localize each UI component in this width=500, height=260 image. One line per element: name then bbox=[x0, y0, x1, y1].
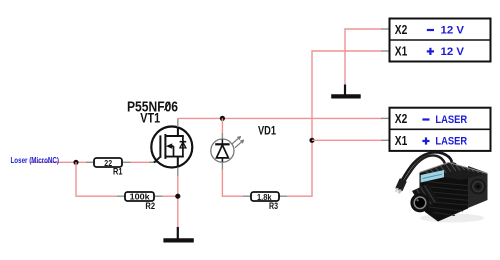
VD1 inner vertical line bbox=[221, 139, 223, 161]
node B junction dot on drain net bbox=[220, 116, 225, 121]
ground symbol 2 bar bbox=[331, 94, 361, 98]
photo label strip bbox=[421, 170, 444, 183]
transistor VT1 MOSFET circle bbox=[151, 127, 192, 168]
VT1 source lead inside bbox=[177, 157, 179, 168]
wire source node to ground bbox=[177, 176, 179, 227]
wire connector X2 -12V to ground bbox=[345, 29, 382, 85]
VD1 light emission arrow 1 bbox=[232, 137, 241, 144]
svg-text:X2: X2 bbox=[395, 23, 408, 37]
VT1 body diode vertical bbox=[182, 136, 184, 157]
connector block LASER pin stub X2 bbox=[381, 117, 390, 119]
VT1 drain lead inside bbox=[177, 127, 179, 136]
resistor R3 lead left bbox=[243, 195, 251, 197]
resistor R2 lead right bbox=[154, 195, 163, 197]
VT1 body-source vertical bbox=[173, 146, 175, 157]
resistor R3 lead right bbox=[279, 195, 287, 197]
node D junction dot source/R2 bbox=[175, 194, 180, 199]
VT1 gate pin gray bbox=[149, 161, 157, 163]
plus sign +12V bbox=[427, 48, 434, 55]
plus sign +LASER bbox=[422, 137, 429, 144]
resistor R1 lead left bbox=[86, 161, 94, 163]
photo back fan block bbox=[468, 166, 488, 208]
connector block 12V divider bbox=[390, 39, 491, 41]
svg-text:12 V: 12 V bbox=[441, 25, 465, 37]
svg-text:22: 22 bbox=[104, 158, 112, 168]
VT1 gate entry diagonal bbox=[154, 157, 161, 163]
svg-text:X2: X2 bbox=[395, 112, 408, 126]
minus sign -12V bbox=[427, 29, 434, 31]
ground symbol 1 stem bbox=[177, 227, 179, 239]
resistor R2 lead left bbox=[117, 195, 125, 197]
connector block X 12V pin stub X2 bbox=[381, 28, 390, 30]
ground symbol 2 stem bbox=[344, 85, 346, 96]
ground symbol 1 bar bbox=[163, 238, 193, 242]
VT1 drain lead gray bbox=[177, 118, 179, 127]
svg-text:X1: X1 bbox=[395, 134, 408, 148]
svg-text:R3: R3 bbox=[269, 201, 278, 211]
connector block LASER divider bbox=[390, 128, 491, 130]
photo lens barrel bbox=[412, 184, 439, 210]
node A junction dot bbox=[73, 160, 78, 165]
connector block LASER pin stub X1 bbox=[381, 139, 390, 141]
VT1 source lead gray bbox=[177, 167, 179, 176]
svg-text:Loser (MicroNC): Loser (MicroNC) bbox=[11, 156, 60, 165]
VD1 cathode bar bbox=[215, 143, 229, 145]
wire node C to connector X1 +LASER bbox=[312, 139, 382, 141]
resistor R1 body bbox=[94, 158, 122, 167]
photo cable strands bbox=[402, 152, 452, 180]
VT1 gate bar bbox=[159, 135, 161, 157]
VD1 triangle bbox=[216, 145, 228, 158]
wire R2 to source node bbox=[163, 195, 178, 197]
VT1 drain stub bbox=[165, 135, 184, 137]
wire node B down to VD1 bbox=[221, 118, 223, 133]
VT1 source stub bbox=[165, 156, 184, 158]
svg-text:VT1: VT1 bbox=[140, 111, 160, 126]
wire node A down to R2 row bbox=[76, 162, 117, 196]
svg-text:12 V: 12 V bbox=[441, 46, 465, 58]
svg-text:X1: X1 bbox=[395, 45, 408, 59]
svg-text:LASER: LASER bbox=[435, 114, 467, 126]
wire VD1 bottom to R3 bbox=[222, 170, 243, 197]
node C junction dot on riser bbox=[309, 138, 314, 143]
VT1 channel bar bbox=[164, 134, 166, 159]
VD1 top lead gray bbox=[221, 133, 223, 139]
photo cable plug bbox=[394, 178, 407, 194]
LED VD1 circle bbox=[211, 139, 234, 162]
svg-text:VD1: VD1 bbox=[258, 126, 276, 138]
wire drain net to connector X2 -LASER bbox=[178, 117, 382, 119]
svg-text:R1: R1 bbox=[113, 167, 123, 177]
photo main finned face bbox=[420, 173, 469, 222]
minus sign -LASER bbox=[422, 118, 429, 120]
wire R1 to gate bbox=[131, 161, 150, 163]
connector block 12V outline bbox=[390, 19, 491, 62]
laser module photo bbox=[394, 152, 488, 222]
photo top fin face bbox=[420, 163, 488, 181]
VD1 light emission arrow 2 bbox=[235, 140, 243, 147]
resistor R3 body bbox=[251, 192, 279, 201]
wire input net from Loser label to node A bbox=[30, 161, 86, 163]
resistor R1 lead right bbox=[122, 161, 131, 163]
VD1 bottom lead gray bbox=[221, 162, 223, 169]
connector block LASER outline bbox=[390, 108, 491, 151]
svg-text:R2: R2 bbox=[145, 201, 155, 211]
connector block X 12V pin stub X1 bbox=[381, 50, 390, 52]
slashed zero mark in P55NF06 bbox=[164, 102, 170, 111]
svg-text:LASER: LASER bbox=[435, 136, 467, 148]
VT1 body stub with arrow bbox=[168, 145, 174, 147]
VT1 body diode symbol bbox=[180, 141, 187, 143]
wire R3 to +12V vertical riser bbox=[287, 51, 382, 196]
resistor R2 body bbox=[125, 192, 154, 201]
